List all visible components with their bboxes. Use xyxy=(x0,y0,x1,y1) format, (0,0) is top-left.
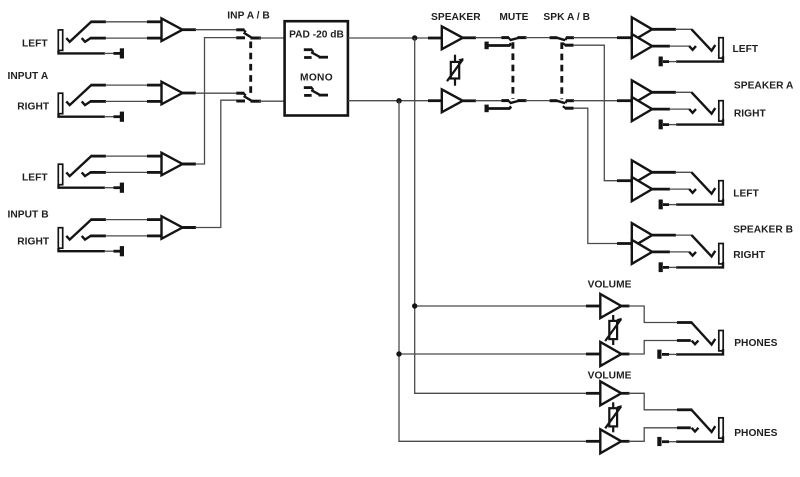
sleeve wire SPEAKER B RIGHT xyxy=(676,262,723,267)
op-amp input buffer INPUT B RIGHT xyxy=(162,216,183,239)
wire phones R out PHONES 2 xyxy=(621,440,629,443)
svg-text:MONO: MONO xyxy=(300,73,333,84)
wire sleeve INPUT B RIGHT xyxy=(104,250,115,252)
spk a/b switch contact B spk a/b left xyxy=(563,43,566,45)
spk a/b switch contact B spk a/b right xyxy=(563,106,566,108)
switch lever INP A/B right xyxy=(244,96,253,101)
wire tip INPUT B RIGHT xyxy=(105,219,148,221)
op-amp phones R PHONES 1 xyxy=(600,342,621,366)
wire spk switch left to speaker B left xyxy=(573,45,618,181)
chassis terminal SPEAKER A RIGHT xyxy=(659,120,663,130)
chassis terminal SPEAKER B LEFT xyxy=(659,200,663,210)
svg-text:VOLUME: VOLUME xyxy=(588,370,632,381)
mute ground contact mute right xyxy=(489,107,512,109)
node junction right ch to phones xyxy=(396,98,401,103)
wire mute right to spk switch xyxy=(525,100,551,102)
svg-text:LEFT: LEFT xyxy=(733,44,759,55)
jack body SPEAKER A RIGHT xyxy=(719,101,723,121)
switch contact A INP A/B left xyxy=(236,28,244,31)
svg-text:RIGHT: RIGHT xyxy=(17,102,50,113)
wire tip SPEAKER A LEFT xyxy=(652,28,676,31)
switch common INP A/B left xyxy=(251,37,262,40)
svg-text:LEFT: LEFT xyxy=(733,189,759,200)
mechanical link SPK A/B (dashed) xyxy=(560,42,563,99)
jack J SPEAKER B LEFT (TRS output jack) xyxy=(692,172,716,193)
chassis terminal phones PHONES 1 xyxy=(657,350,661,359)
op-amp phones L PHONES 2 xyxy=(600,381,621,405)
wire selector right to PAD xyxy=(259,100,285,102)
wire ring INPUT A RIGHT xyxy=(105,100,148,102)
wire sleeve INPUT A RIGHT xyxy=(104,116,115,118)
svg-text:INP A / B: INP A / B xyxy=(227,11,270,22)
wire spk switch right to speaker B right xyxy=(573,108,618,243)
switch contact B INP A/B left xyxy=(236,36,245,39)
node junction phones 1 left xyxy=(412,303,417,308)
switch contact A INP A/B right xyxy=(236,92,244,95)
op-amp speaker L xyxy=(442,26,463,49)
svg-text:RIGHT: RIGHT xyxy=(733,250,766,261)
spk a/b switch contact A spk a/b right xyxy=(550,99,558,102)
jack J phones PHONES 2 xyxy=(692,410,716,432)
wire tip SPEAKER B RIGHT xyxy=(652,234,676,237)
mute switch lever mute left xyxy=(510,38,520,41)
switch contact B INP A/B right xyxy=(236,100,245,103)
wire ring INPUT A LEFT xyxy=(105,37,148,39)
wire input A left to selector xyxy=(195,29,237,31)
wire phones R out PHONES 1 xyxy=(621,353,629,356)
mechanical link MUTE (dashed) xyxy=(511,42,514,99)
wire ring SPEAKER A LEFT xyxy=(652,45,670,48)
level control element speaker level xyxy=(454,55,456,86)
ring contact tick SPEAKER A RIGHT xyxy=(689,109,696,113)
svg-text:LEFT: LEFT xyxy=(22,173,48,184)
svg-text:RIGHT: RIGHT xyxy=(734,109,767,120)
wire sleeve INPUT B LEFT xyxy=(104,187,115,189)
op-amp input buffer INPUT B LEFT xyxy=(162,153,183,176)
op-amp output driver pair SPEAKER A LEFT xyxy=(632,17,652,41)
svg-text:SPEAKER: SPEAKER xyxy=(431,12,481,23)
sleeve wire phones PHONES 2 xyxy=(676,436,723,441)
wire sleeve INPUT A LEFT xyxy=(104,52,115,54)
level control element VOL PHONES 2 xyxy=(612,402,614,432)
jack J INPUT A LEFT (TRS input jack) xyxy=(58,30,62,51)
svg-text:INPUT A: INPUT A xyxy=(8,71,49,82)
wire tip INPUT B LEFT xyxy=(105,155,148,157)
wire tip SPEAKER A RIGHT xyxy=(652,91,676,94)
ring contact tick SPEAKER A LEFT xyxy=(689,46,696,50)
op-amp speaker R xyxy=(442,89,463,112)
chassis terminal INPUT A RIGHT xyxy=(120,112,124,122)
op-amp phones L PHONES 1 xyxy=(600,294,621,318)
wire tip INPUT A RIGHT xyxy=(105,84,148,86)
spk a/b switch lever spk a/b left xyxy=(557,38,566,41)
svg-text:LEFT: LEFT xyxy=(22,38,48,49)
chassis terminal SPEAKER A LEFT xyxy=(659,57,663,67)
wire phones L out PHONES 1 xyxy=(621,305,629,308)
switch lever INP A/B left xyxy=(244,33,253,38)
jack J SPEAKER B RIGHT (TRS output jack) xyxy=(692,235,716,256)
op-amp input buffer INPUT A LEFT xyxy=(162,18,183,41)
jack J INPUT A RIGHT (TRS input jack) xyxy=(58,93,62,114)
spk a/b switch lever spk a/b right xyxy=(557,101,566,104)
spk a/b switch contact A spk a/b left xyxy=(550,36,558,39)
switch common INP A/B right xyxy=(251,100,262,103)
chassis terminal INPUT A LEFT xyxy=(120,48,124,58)
svg-text:MUTE: MUTE xyxy=(499,12,528,23)
op-amp input buffer INPUT A RIGHT xyxy=(162,82,183,105)
wire ring INPUT B RIGHT xyxy=(105,235,148,237)
jack J SPEAKER A RIGHT (TRS output jack) xyxy=(692,92,716,113)
wire ring SPEAKER B RIGHT xyxy=(652,250,670,253)
chassis terminal INPUT B LEFT xyxy=(120,183,124,193)
mechanical link INP A/B (dashed) xyxy=(249,42,252,95)
wire right channel to phones amps xyxy=(399,101,587,442)
op-amp output driver pair SPEAKER A RIGHT xyxy=(632,80,652,104)
wire speaker L to mute xyxy=(463,36,476,39)
wire mute left to spk switch xyxy=(525,37,551,39)
mute ground chassis mute right xyxy=(485,105,489,113)
wire input B left to selector xyxy=(183,163,197,166)
wire tip SPEAKER B LEFT xyxy=(652,171,676,174)
wire phones L out PHONES 2 xyxy=(621,392,629,395)
sleeve wire phones PHONES 1 xyxy=(676,349,723,354)
wire spk switch left to speaker A left xyxy=(573,37,632,39)
wire spk switch right to speaker A right xyxy=(573,100,632,102)
sleeve wire SPEAKER A LEFT xyxy=(676,56,723,61)
wire PAD left out to speaker amp xyxy=(348,37,442,39)
svg-text:PHONES: PHONES xyxy=(734,338,777,349)
wire ring SPEAKER A RIGHT xyxy=(652,108,670,111)
wire ring INPUT B LEFT xyxy=(105,171,148,173)
svg-text:INPUT B: INPUT B xyxy=(8,209,49,220)
jack body SPEAKER B LEFT xyxy=(719,181,723,201)
jack body SPEAKER B RIGHT xyxy=(719,244,723,264)
svg-text:RIGHT: RIGHT xyxy=(17,237,50,248)
wire speaker R to mute xyxy=(463,99,476,102)
jack J INPUT B LEFT (TRS input jack) xyxy=(58,164,62,185)
mute switch contact mute left xyxy=(501,36,509,39)
op-amp output driver pair SPEAKER B LEFT xyxy=(632,160,652,184)
op-amp output driver pair SPEAKER B RIGHT xyxy=(632,223,652,247)
svg-text:SPEAKER B: SPEAKER B xyxy=(733,224,793,235)
svg-text:VOLUME: VOLUME xyxy=(588,279,632,290)
wire ring SPEAKER B LEFT xyxy=(652,188,670,191)
node junction left ch to phones xyxy=(412,35,417,40)
svg-text:SPEAKER A: SPEAKER A xyxy=(734,80,794,91)
mute ground contact mute left xyxy=(489,44,512,46)
chassis terminal INPUT B RIGHT xyxy=(120,246,124,256)
wire input A right to selector xyxy=(195,92,237,94)
mute ground chassis mute left xyxy=(485,42,489,50)
jack J INPUT B RIGHT (TRS input jack) xyxy=(58,228,62,249)
svg-text:PHONES: PHONES xyxy=(734,428,777,439)
ring contact tick SPEAKER B LEFT xyxy=(689,189,696,193)
wire selector left to PAD xyxy=(259,37,285,39)
mute switch contact mute right xyxy=(501,99,509,102)
level control element VOL PHONES 1 xyxy=(612,315,614,345)
jack body SPEAKER A LEFT xyxy=(719,38,723,58)
chassis terminal phones PHONES 2 xyxy=(657,437,661,446)
sleeve wire SPEAKER A RIGHT xyxy=(676,119,723,124)
switch icon MONO xyxy=(304,86,312,89)
jack J phones PHONES 1 xyxy=(692,323,716,345)
mute switch lever mute right xyxy=(510,101,520,104)
jack J SPEAKER A LEFT (TRS output jack) xyxy=(692,29,716,50)
chassis terminal SPEAKER B RIGHT xyxy=(659,262,663,272)
svg-text:PAD -20 dB: PAD -20 dB xyxy=(289,30,344,41)
switch icon PAD xyxy=(304,48,312,51)
block PAD/MONO box xyxy=(285,21,348,115)
sleeve wire SPEAKER B LEFT xyxy=(676,199,723,204)
ring contact tick SPEAKER B RIGHT xyxy=(689,252,696,256)
wire input B right to selector xyxy=(183,226,197,229)
wire tip INPUT A LEFT xyxy=(105,21,148,23)
svg-text:SPK A / B: SPK A / B xyxy=(543,12,590,23)
wire PAD right out to speaker amp xyxy=(348,100,442,102)
node junction phones 1 right xyxy=(396,351,401,356)
wire left channel to phones amps xyxy=(415,38,587,393)
op-amp phones R PHONES 2 xyxy=(600,429,621,453)
